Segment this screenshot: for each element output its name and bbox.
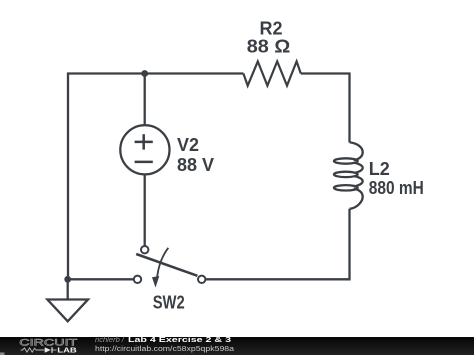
svg-text:880 mH: 880 mH <box>369 178 424 198</box>
resistor R2 <box>243 61 300 85</box>
wire V2 branch upper <box>144 74 146 127</box>
inductor L2 <box>334 142 363 208</box>
switch SW2 <box>134 246 206 288</box>
svg-text:http://circuitlab.com/c58xp5qp: http://circuitlab.com/c58xp5qpk598a <box>95 344 235 353</box>
svg-text:88 V: 88 V <box>177 155 214 175</box>
voltage source V2 <box>120 125 169 174</box>
svg-text:Lab 4 Exercise 2 & 3: Lab 4 Exercise 2 & 3 <box>128 335 231 344</box>
wire top-left segment <box>68 74 243 280</box>
svg-text:L2: L2 <box>369 159 390 179</box>
ground <box>47 279 88 321</box>
svg-text:SW2: SW2 <box>153 293 185 313</box>
logo diode <box>45 347 51 353</box>
svg-text:R2: R2 <box>259 18 282 38</box>
bottom-left light smudge <box>0 352 5 355</box>
logo resistor zigzag <box>21 348 45 352</box>
junction dot top <box>141 70 148 77</box>
wire bottom-right segment <box>206 209 350 279</box>
junction dot bottom-left <box>64 276 71 283</box>
wire top-right segment <box>301 74 350 143</box>
svg-text:LAB: LAB <box>57 346 77 355</box>
svg-text:88 Ω: 88 Ω <box>247 36 291 56</box>
svg-text:richlerb /: richlerb / <box>95 335 125 344</box>
svg-text:V2: V2 <box>177 135 199 155</box>
wire V2 branch lower <box>144 174 146 246</box>
